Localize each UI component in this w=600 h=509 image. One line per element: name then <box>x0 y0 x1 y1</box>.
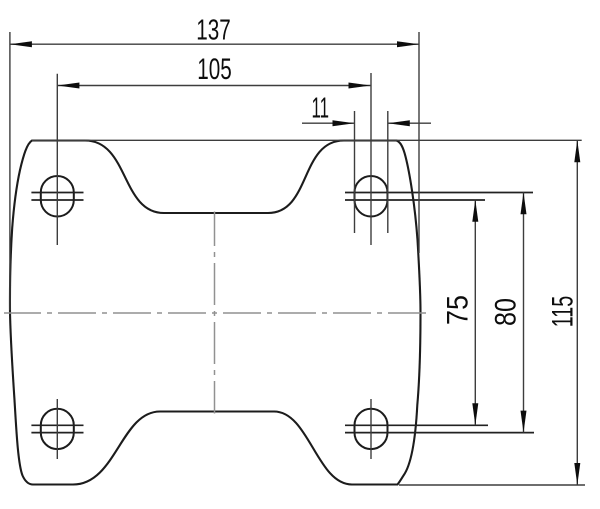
hole top-left slot lines <box>31 193 83 201</box>
hole bottom-right slot lines <box>345 425 534 432</box>
plate outline <box>10 141 421 485</box>
arrowhead 115 top <box>574 140 580 162</box>
hole top-right centerline <box>370 73 372 245</box>
dimension line 137 <box>10 43 419 45</box>
svg-text:80: 80 <box>490 298 523 326</box>
dimension line 105 <box>57 85 370 87</box>
dimension line 75 <box>474 200 476 425</box>
hole top-right slot lines <box>345 193 533 201</box>
arrowhead 80 top <box>521 192 527 214</box>
arrowhead 11 right <box>388 120 410 126</box>
dimension line 80 <box>523 192 525 432</box>
dimension 115 <box>547 140 581 485</box>
svg-text:115: 115 <box>547 296 580 328</box>
vertical centerline <box>214 212 216 414</box>
arrowhead 11 left <box>333 120 355 126</box>
hole bottom-right centerline <box>370 399 372 459</box>
slot edge extension lines <box>354 111 356 233</box>
arrowhead 115 bottom <box>574 463 580 485</box>
svg-text:105: 105 <box>197 53 232 86</box>
dimension 137 <box>10 14 419 47</box>
hole bottom-right <box>355 409 388 449</box>
dimension 105 <box>57 53 370 89</box>
dimension 80 <box>490 192 527 432</box>
svg-text:137: 137 <box>196 14 231 46</box>
dimension 75 <box>442 200 479 425</box>
svg-text:11: 11 <box>312 93 330 125</box>
arrowhead 75 top <box>472 200 478 222</box>
arrowhead 105 left <box>57 83 79 89</box>
horizontal centerline <box>4 312 426 314</box>
hole bottom-left slot lines <box>31 425 83 432</box>
hole top-left centerline <box>56 74 58 245</box>
dimension 11 <box>302 93 431 127</box>
dimension line 115 <box>576 140 578 485</box>
svg-text:75: 75 <box>442 295 475 325</box>
extension line bottom edge (115) <box>399 484 585 486</box>
hole bottom-left centerline <box>56 399 58 459</box>
dimension line 11 left segment <box>302 122 355 124</box>
arrowhead 137 right <box>397 41 419 47</box>
dimension line 11 right segment <box>388 122 431 124</box>
extension line top edge (115) <box>32 139 582 141</box>
arrowhead 75 bottom <box>472 403 478 425</box>
extension line right (137) <box>418 32 420 253</box>
hole top-right <box>355 176 388 217</box>
arrowhead 105 right <box>349 83 371 89</box>
hole top-left <box>41 176 74 216</box>
hole bottom-left <box>41 409 74 449</box>
arrowhead 80 bottom <box>521 411 527 433</box>
arrowhead 137 left <box>10 41 32 47</box>
extension line left (137) <box>9 32 11 310</box>
